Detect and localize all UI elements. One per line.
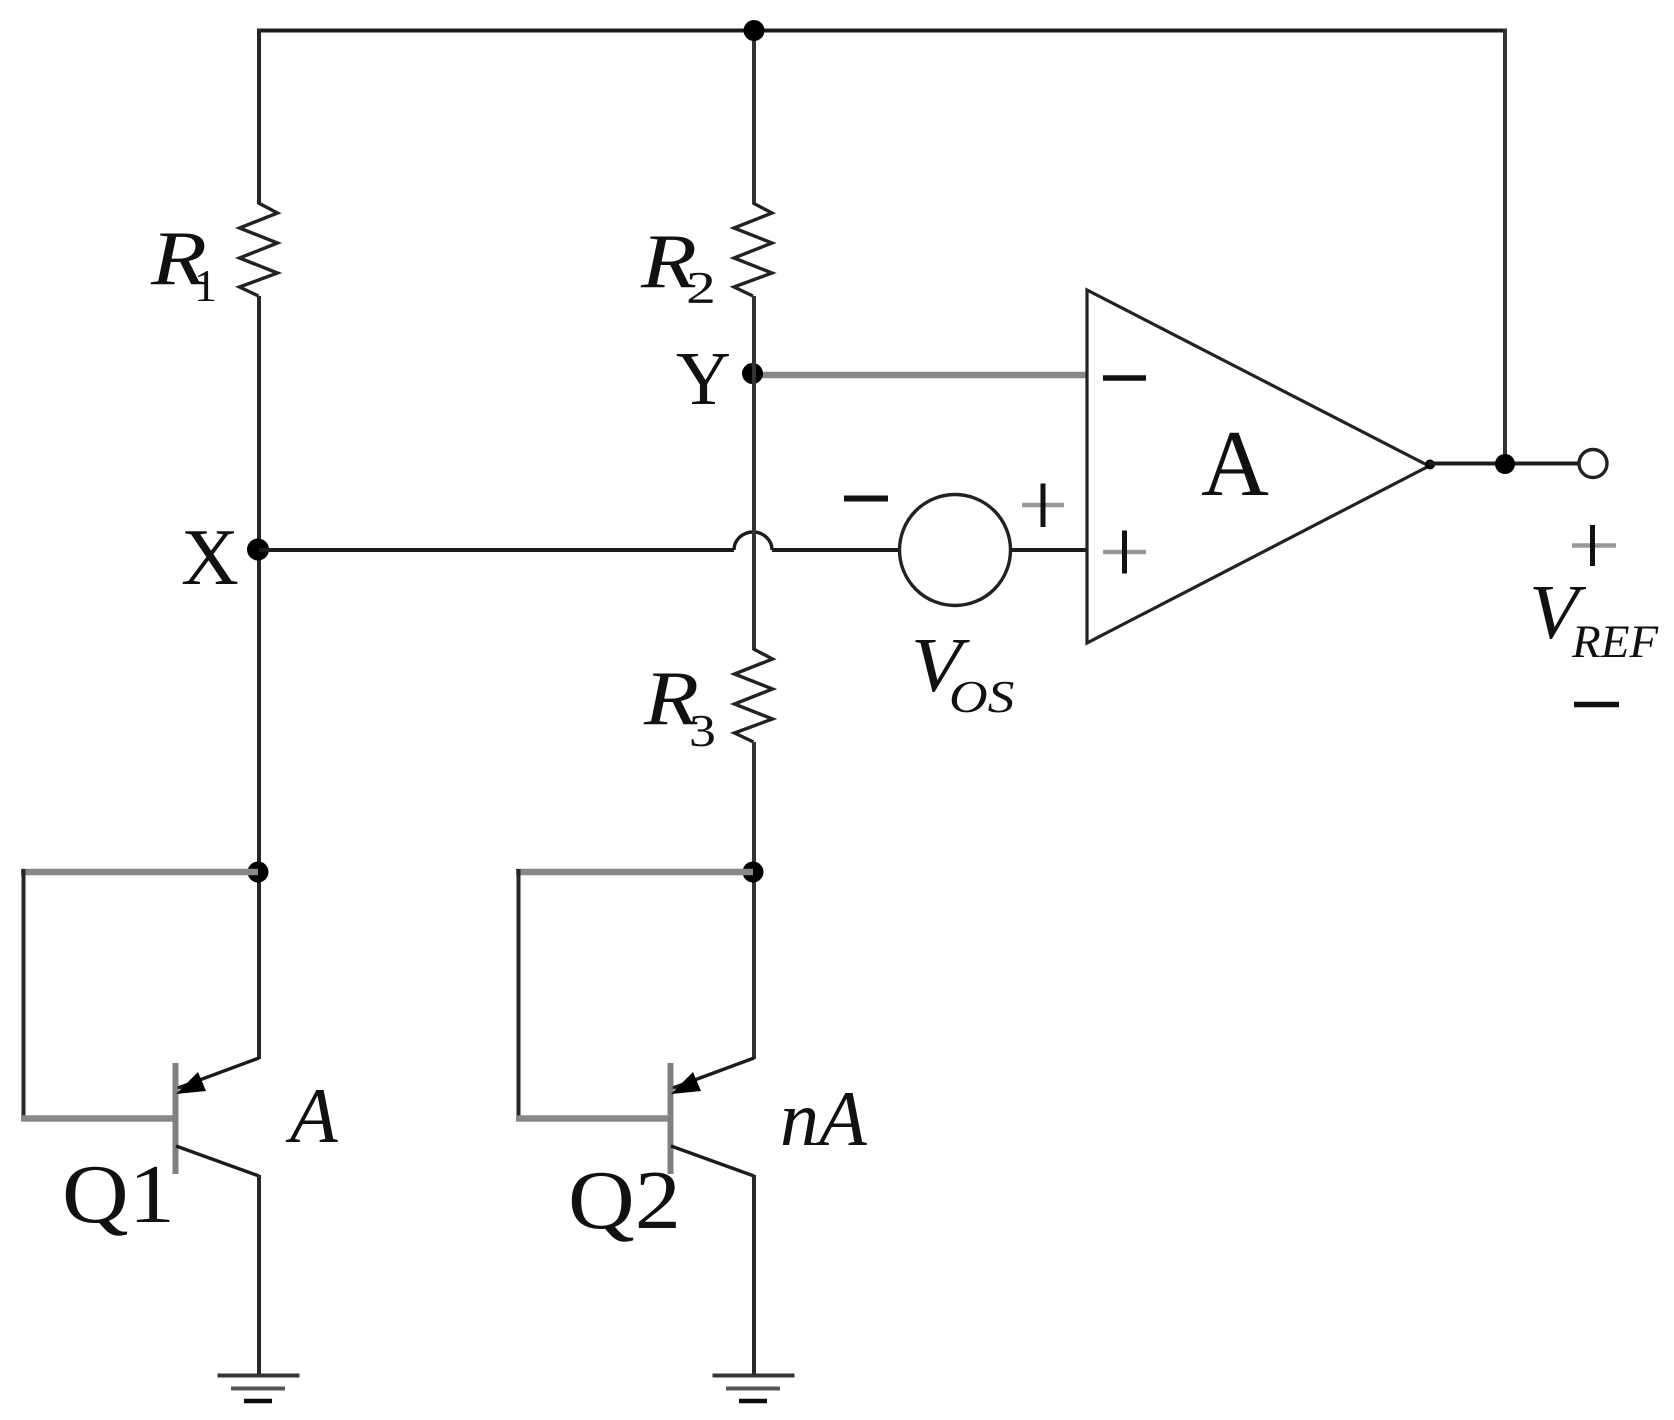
wire middle vertical mid	[752, 296, 756, 650]
node Q1 collector junction	[248, 862, 269, 883]
wire X to Vos	[772, 548, 899, 552]
op-amp inverting input minus	[1103, 375, 1146, 381]
wire Q1 loop top	[21, 869, 258, 876]
svg-text:1: 1	[194, 260, 217, 311]
svg-text:REF: REF	[1571, 616, 1659, 668]
wire op-amp output	[1429, 462, 1579, 466]
svg-text:A: A	[1201, 412, 1269, 516]
wire Q1 loop left leg	[22, 869, 26, 1120]
wire right vertical feedback	[1503, 29, 1507, 465]
wire Vos to op-amp + input	[1011, 548, 1087, 552]
op-amp noninverting input plus	[1103, 550, 1146, 555]
transistor Q1 emitter arrow	[176, 1072, 206, 1094]
ground (Q2)	[713, 1374, 795, 1378]
svg-text:A: A	[285, 1072, 338, 1159]
wire Q1 collector to ground	[257, 1175, 261, 1376]
svg-text:3: 3	[689, 705, 716, 756]
wire top rail	[257, 29, 1507, 33]
node X	[247, 539, 269, 561]
resistor R1	[240, 203, 278, 296]
resistor R2	[734, 203, 772, 296]
ground (Q1)	[218, 1374, 300, 1378]
wire Q2 loop left leg	[517, 869, 521, 1120]
wire Q2 loop top	[516, 869, 753, 876]
wire Q2 collector to ground	[752, 1175, 756, 1376]
svg-text:Y: Y	[676, 337, 731, 421]
transistor Q2 emitter arrow	[671, 1072, 701, 1094]
transistor Q2 collector diagonal	[671, 1146, 754, 1176]
wire Q1 loop bottom (base)	[21, 1115, 173, 1122]
node op-amp apex	[1425, 460, 1435, 470]
transistor Q2 emitter diagonal	[673, 1058, 754, 1088]
svg-text:OS: OS	[949, 672, 1014, 722]
terminal VREF open circle	[1579, 450, 1607, 478]
svg-text:X: X	[181, 514, 239, 602]
VREF plus sign	[1572, 543, 1616, 548]
transistor Q1 base bar	[173, 1063, 179, 1174]
wire X horizontal	[259, 548, 734, 552]
transistor Q1 collector diagonal	[176, 1146, 259, 1176]
op-amp U1 triangle	[1087, 290, 1429, 643]
wire Y to op-amp - input (gray)	[753, 372, 1087, 379]
transistor Q1 emitter diagonal	[178, 1058, 259, 1088]
resistor R3	[735, 649, 773, 742]
wire Q2 loop bottom (base)	[516, 1115, 668, 1122]
node Q2 collector junction	[743, 862, 764, 883]
source VOS circle	[900, 495, 1011, 606]
wire left vertical lower	[257, 296, 261, 1059]
VOS plus sign	[1022, 503, 1064, 508]
node top junction	[744, 20, 765, 41]
node output junction	[1495, 454, 1515, 474]
svg-text:Q2: Q2	[568, 1154, 681, 1247]
wire middle vertical lower	[752, 742, 756, 1059]
svg-text:2: 2	[686, 262, 716, 314]
wire left vertical upper	[257, 29, 261, 205]
transistor Q2 base bar	[668, 1063, 674, 1174]
VREF minus sign	[1574, 702, 1619, 708]
svg-text:nA: nA	[780, 1075, 867, 1162]
wire middle vertical upper	[752, 29, 756, 205]
VOS minus sign	[844, 496, 888, 502]
svg-text:Q1: Q1	[62, 1148, 175, 1241]
wire hop over middle branch	[734, 532, 772, 550]
node Y	[742, 363, 763, 384]
